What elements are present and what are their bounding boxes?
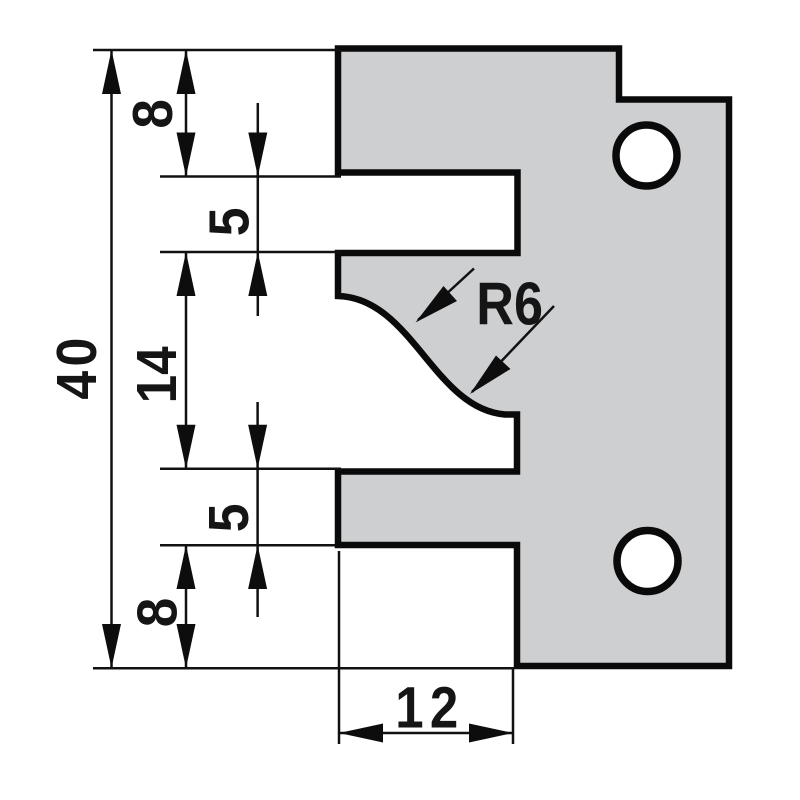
ext slot1 bottom (y=252) bbox=[160, 251, 341, 254]
ext top (y=50) bbox=[93, 49, 341, 52]
dim line 40 bbox=[110, 50, 113, 668]
dim line 14 bbox=[185, 252, 188, 469]
svg-text:5: 5 bbox=[197, 207, 261, 236]
leader R6 upper bbox=[418, 269, 474, 321]
arrow 12 left bbox=[339, 724, 383, 743]
arrow R6 lower bbox=[470, 356, 511, 395]
arrow 8bot up bbox=[177, 545, 196, 589]
ext slot1 top (y=176.5) bbox=[160, 175, 341, 178]
profile body (gray knife cross-section) bbox=[338, 49, 729, 667]
arrow 40 up bbox=[102, 50, 121, 94]
hole top bbox=[616, 125, 677, 186]
svg-text:R6: R6 bbox=[476, 270, 543, 337]
ext bottom baseline (y=668.2) bbox=[93, 667, 514, 670]
dimension lines bbox=[112, 50, 555, 733]
arrow 14 up bbox=[177, 252, 196, 296]
arrow 40 down bbox=[102, 624, 121, 668]
dim line 8 bottom bbox=[185, 545, 188, 668]
arrow 8top down bbox=[177, 133, 196, 177]
arrow R6 upper bbox=[416, 286, 458, 323]
arrowheads bbox=[102, 50, 513, 743]
arrow 8bot down bbox=[177, 624, 196, 668]
ext bar top (y=468.7) bbox=[160, 467, 341, 470]
arrow 5bot up (below line) bbox=[248, 545, 267, 589]
dim line 5 top bbox=[257, 103, 260, 316]
dim line 5 bottom bbox=[256, 402, 259, 617]
svg-text:12: 12 bbox=[395, 675, 464, 740]
hole bottom bbox=[617, 531, 678, 592]
ext notch right vertical (x=513) bbox=[512, 669, 515, 744]
arrow 12 right bbox=[469, 724, 513, 743]
svg-text:8: 8 bbox=[120, 99, 184, 128]
ext notch left vertical (x=339) bbox=[338, 551, 341, 744]
svg-text:40: 40 bbox=[45, 333, 109, 399]
arrow 5bot down (above line) bbox=[248, 425, 267, 469]
arrow 5top up (below line) bbox=[248, 252, 267, 296]
svg-text:8: 8 bbox=[125, 598, 189, 627]
svg-text:14: 14 bbox=[126, 346, 189, 403]
arrow 14 down bbox=[177, 425, 196, 469]
svg-text:5: 5 bbox=[197, 503, 261, 532]
arrow 8top up bbox=[177, 50, 196, 94]
arrow 5top down (above line) bbox=[248, 133, 267, 177]
dim line 12 bbox=[339, 732, 513, 735]
ext bar bottom (y=545.3) bbox=[160, 544, 335, 547]
leader R6 lower bbox=[472, 306, 554, 392]
dim line 8 top bbox=[185, 50, 188, 177]
extension lines bbox=[93, 50, 514, 744]
